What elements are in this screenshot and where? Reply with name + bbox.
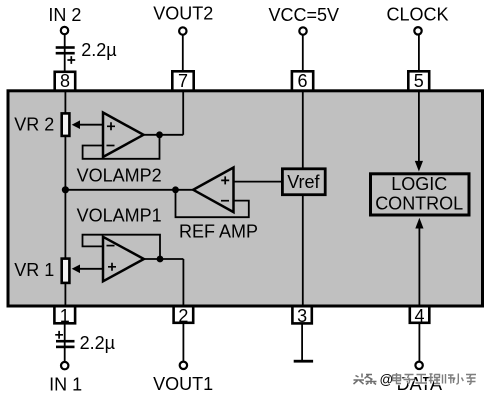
svg-text:IN 1: IN 1	[49, 374, 82, 394]
svg-text:7: 7	[178, 71, 188, 91]
svg-text:Vref: Vref	[287, 172, 320, 192]
svg-text:VCC=5V: VCC=5V	[269, 5, 340, 25]
svg-text:VOLAMP1: VOLAMP1	[77, 205, 162, 225]
svg-text:4: 4	[415, 306, 425, 326]
svg-text:6: 6	[297, 71, 307, 91]
svg-text:IN 2: IN 2	[48, 5, 81, 25]
svg-text:8: 8	[60, 71, 70, 91]
svg-text:1: 1	[60, 306, 70, 326]
svg-text:2.2µ: 2.2µ	[81, 40, 116, 60]
svg-text:VOLAMP2: VOLAMP2	[77, 165, 162, 185]
svg-text:CONTROL: CONTROL	[375, 194, 463, 214]
svg-text:REF AMP: REF AMP	[179, 221, 258, 241]
svg-text:VR 2: VR 2	[14, 114, 54, 134]
svg-text:@: @	[380, 372, 394, 387]
svg-text:2.2µ: 2.2µ	[80, 333, 115, 353]
svg-text:VOUT2: VOUT2	[153, 4, 213, 24]
svg-text:LOGIC: LOGIC	[391, 174, 447, 194]
svg-text:3: 3	[297, 306, 307, 326]
svg-text:VR 1: VR 1	[14, 260, 54, 280]
svg-text:CLOCK: CLOCK	[386, 4, 448, 24]
svg-text:2: 2	[178, 306, 188, 326]
svg-text:VOUT1: VOUT1	[153, 374, 213, 394]
svg-text:5: 5	[414, 71, 424, 91]
